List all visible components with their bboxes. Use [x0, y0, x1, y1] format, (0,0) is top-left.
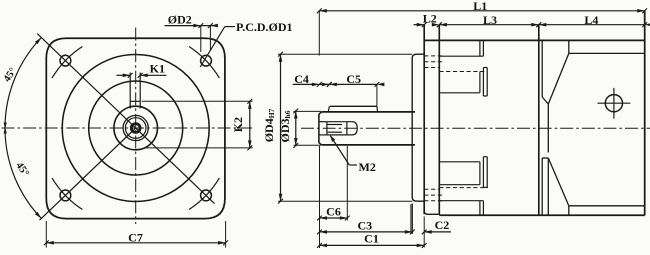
pilot spigot plate	[412, 54, 424, 201]
motor cavity profile top	[541, 40, 543, 97]
dimension D3	[294, 110, 322, 112]
pitch circle arc segments	[52, 47, 82, 79]
svg-text:C3: C3	[357, 218, 372, 232]
dimension D4	[278, 53, 412, 55]
svg-text:M2: M2	[359, 160, 376, 174]
bolt boss circle	[89, 81, 183, 175]
front view flange outline	[46, 38, 225, 218]
bolt hole bottom-left	[60, 190, 71, 201]
svg-text:45°: 45°	[13, 160, 30, 178]
svg-text:L2: L2	[423, 11, 437, 25]
svg-text:C6: C6	[326, 204, 341, 218]
shaft key	[330, 105, 377, 107]
dimension line L2 L3 L4	[414, 24, 425, 26]
dimension C3 and C2	[320, 231, 413, 233]
center hole M2 thick ring	[131, 124, 140, 133]
flange bolt hole hidden lines top	[424, 55, 443, 57]
keyway slot	[129, 73, 131, 109]
angular dimension arc	[5, 38, 41, 219]
svg-text:P.C.D.ØD1: P.C.D.ØD1	[236, 20, 293, 34]
section face line	[538, 25, 540, 216]
output shaft outline	[319, 112, 322, 145]
dimension K1	[117, 74, 131, 76]
svg-text:C5: C5	[346, 72, 361, 86]
svg-text:C4: C4	[294, 72, 309, 86]
extension lines bottom right view	[319, 146, 321, 248]
svg-text:K1: K1	[150, 62, 165, 76]
main horizontal centerline	[301, 127, 650, 129]
dimension L1	[319, 10, 644, 12]
inner circle	[125, 118, 146, 139]
motor cavity profile bottom	[541, 158, 543, 215]
svg-text:C2: C2	[435, 218, 450, 232]
inner circle outer	[123, 115, 148, 140]
bolt hole bottom-right	[201, 190, 212, 201]
svg-text:ØD4H7: ØD4H7	[262, 108, 276, 142]
input pilot hole crosshair	[605, 95, 622, 112]
svg-text:L1: L1	[473, 0, 487, 13]
gearbox body outline	[424, 39, 645, 41]
mounting flange plate	[423, 25, 425, 215]
shaft bore circle D3	[114, 106, 158, 150]
dimension C6	[320, 217, 348, 219]
leader M2	[331, 136, 350, 165]
svg-text:L3: L3	[483, 13, 497, 27]
lower-left 45 degree diagonal	[40, 128, 136, 220]
dimension C1	[320, 244, 425, 246]
bottom screw pocket	[439, 161, 480, 163]
flange bolt hole hidden lines bottom	[424, 188, 439, 190]
svg-text:ØD2: ØD2	[168, 12, 192, 26]
svg-text:L4: L4	[584, 13, 598, 27]
dimension C7	[45, 221, 47, 248]
svg-text:C1: C1	[364, 232, 379, 246]
svg-text:K2: K2	[231, 117, 245, 132]
flange horizontal centerline	[2, 127, 253, 129]
angular dimension mid arrows	[4, 127, 7, 134]
pilot circle D4	[62, 55, 209, 202]
dimension D2	[165, 25, 217, 27]
bolt hole top-right	[201, 55, 212, 66]
dimension K2	[142, 100, 253, 102]
svg-text:45°: 45°	[2, 66, 19, 84]
main 45 degree diagonal	[37, 34, 214, 204]
svg-text:C7: C7	[128, 230, 143, 244]
dimension C4 C5	[293, 83, 377, 85]
M2 tapped hole detail	[319, 121, 327, 123]
top screw pocket	[479, 40, 481, 56]
flange vertical centerline	[135, 28, 137, 225]
D2 extension lines	[200, 26, 202, 52]
bolt hole top-left	[60, 55, 71, 66]
